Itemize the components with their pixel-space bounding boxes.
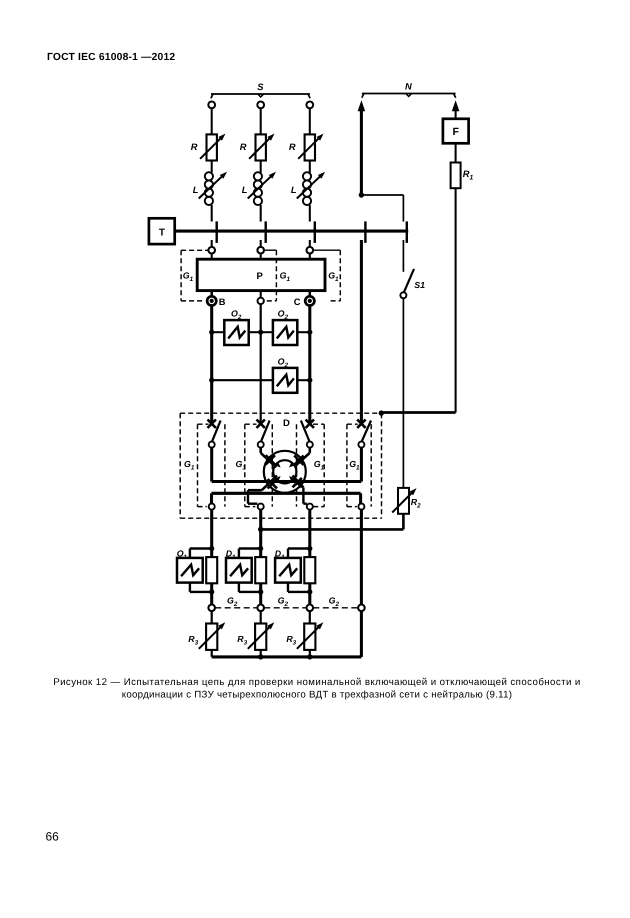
switch pole 1 blade <box>212 421 221 442</box>
node N (neutral bracket) <box>362 82 456 98</box>
wire <box>455 109 457 119</box>
resistor R (adjustable) phase 1 <box>191 134 226 161</box>
wire phase 3 main <box>308 306 311 423</box>
svg-text:L: L <box>193 185 199 195</box>
wire: R2 return to phase 2 <box>261 528 404 531</box>
svg-text:G1: G1 <box>328 270 339 283</box>
svg-text:координации с ПЗУ четырехполюс: координации с ПЗУ четырехполюсного ВДТ в… <box>122 689 513 700</box>
wire <box>260 254 262 260</box>
resistor R (adjustable) phase 2 <box>240 134 275 161</box>
conductor crossing mark 2 <box>294 456 303 465</box>
wire pole4 to bottom terminal <box>359 493 362 504</box>
node S (supply bracket) <box>211 82 310 98</box>
wire: bottom return bus <box>212 655 362 658</box>
svg-text:B: B <box>219 297 226 307</box>
junction <box>307 589 312 594</box>
wire <box>260 240 262 247</box>
svg-text:F: F <box>452 126 459 138</box>
wire <box>309 205 311 222</box>
svg-text:S: S <box>257 82 264 92</box>
wire <box>297 379 310 381</box>
device O2 (c) <box>273 357 297 393</box>
junction <box>307 330 312 335</box>
junction <box>307 546 312 551</box>
junction <box>258 546 263 551</box>
device O2 (a) <box>224 309 248 345</box>
terminal circle G2 node 2 <box>257 605 264 612</box>
junction <box>307 654 312 659</box>
wire pole2 into toroid <box>261 448 277 468</box>
svg-text:R1: R1 <box>463 169 474 182</box>
wire phase 1 <box>210 510 213 605</box>
svg-text:G2: G2 <box>329 596 340 609</box>
junction <box>209 378 214 383</box>
wire <box>402 514 405 530</box>
junction <box>209 589 214 594</box>
terminal circle G2 node 3 <box>307 605 314 612</box>
resistor R (adjustable) phase 3 <box>289 134 324 161</box>
wire N <box>360 510 363 605</box>
svg-text:G1: G1 <box>349 459 360 472</box>
svg-text:R: R <box>191 142 198 152</box>
switch pole 2 moving contact <box>258 442 264 448</box>
conductor crossing mark 1 <box>266 455 275 464</box>
switch pole 2 blade <box>261 421 270 442</box>
wire pole2 out of toroid <box>248 476 277 504</box>
wire <box>297 331 310 333</box>
junction <box>258 589 263 594</box>
wire pole3 out of toroid <box>293 476 307 504</box>
svg-text:P: P <box>257 271 264 282</box>
svg-text:R3: R3 <box>188 634 198 647</box>
switch pole 2 fixed contact <box>257 420 265 428</box>
svg-text:T: T <box>159 227 165 238</box>
switch pole 4 fixed contact <box>357 420 365 428</box>
inductor L (adjustable) phase 2 <box>242 172 276 205</box>
dashed box G1 pole 3 <box>297 424 325 506</box>
wire <box>260 109 262 135</box>
bottom terminal circle pole 3 <box>307 504 313 510</box>
switch pole 4 blade <box>362 421 371 442</box>
svg-text:L: L <box>242 185 248 195</box>
toroid core (detector) <box>264 451 306 493</box>
wire <box>309 291 312 297</box>
wire <box>260 650 262 657</box>
wire <box>211 611 213 623</box>
resistor R2 (adjustable) <box>392 488 421 514</box>
wire N to bus <box>360 611 363 657</box>
terminal circle phase 3 <box>306 102 313 109</box>
dashed box G1 group c <box>313 250 340 301</box>
dashed box G1 group b <box>264 250 276 301</box>
dashed link G2 <box>313 607 358 609</box>
toroid arrow 3 <box>274 476 280 482</box>
wire <box>212 331 225 333</box>
switch pole 1 fixed contact <box>208 420 216 428</box>
svg-text:L: L <box>291 185 297 195</box>
wire <box>309 161 311 173</box>
wire <box>260 291 262 298</box>
resistor in unit phase 3 <box>304 557 315 583</box>
toroid arrow 4 <box>289 476 295 482</box>
terminal circle above P, phase 3 <box>307 247 314 254</box>
terminal circle phase 2 <box>257 102 264 109</box>
wire pole1 down <box>210 448 213 482</box>
switch pole 3 fixed contact <box>306 420 314 428</box>
junction <box>258 527 263 532</box>
wire <box>260 205 262 222</box>
svg-text:R3: R3 <box>286 634 296 647</box>
wire: link from R1 branch to D <box>381 411 455 414</box>
wire <box>211 650 213 657</box>
wire <box>211 205 213 222</box>
resistor R1 <box>451 163 474 189</box>
dashed box G1 group a (around P poles 1) <box>181 250 208 301</box>
wire <box>260 161 262 173</box>
contact tick phase 2 <box>265 221 267 243</box>
svg-text:G1: G1 <box>183 270 194 283</box>
svg-text:66: 66 <box>46 830 60 844</box>
terminal circle phase 1 <box>208 102 215 109</box>
terminal circle phase 2 below P <box>258 298 264 304</box>
wire: N conductor <box>360 109 363 195</box>
junction <box>379 410 384 415</box>
wire <box>260 611 262 623</box>
wire phase 2 <box>259 510 262 605</box>
wire <box>402 298 404 488</box>
svg-text:R2: R2 <box>411 497 421 510</box>
terminal circle G2 node 1 <box>208 605 215 612</box>
svg-text:R: R <box>240 142 247 152</box>
device P (making switch) <box>197 259 325 290</box>
resistor R3 (adjustable) phase 2 <box>237 622 274 650</box>
dashed box G1 pole 4 <box>347 424 371 506</box>
device O2 (b) <box>273 309 297 345</box>
wire <box>309 254 311 260</box>
switch S1 <box>400 269 425 298</box>
resistor R3 (adjustable) phase 1 <box>188 622 225 650</box>
contact tick phase 1 <box>215 221 217 243</box>
junction <box>307 378 312 383</box>
junction node on N <box>359 192 364 197</box>
device D1 unit phase 3 <box>275 548 310 592</box>
toroid arrow 2 <box>289 461 295 467</box>
svg-text:D: D <box>283 418 290 429</box>
wire <box>455 188 457 412</box>
switch pole 1 moving contact <box>209 442 215 448</box>
wire phase 3 <box>308 510 311 605</box>
resistor R3 (adjustable) phase 3 <box>286 622 323 650</box>
svg-text:G1: G1 <box>184 459 195 472</box>
wire pole4 down <box>360 448 363 482</box>
switch pole 3 blade <box>301 421 310 442</box>
inductor L (adjustable) phase 1 <box>193 172 227 205</box>
dashed link G2 <box>264 607 306 609</box>
wire phase 2 main <box>260 304 262 423</box>
conductor crossing mark 3 <box>268 479 277 488</box>
switch pole 3 moving contact <box>307 442 313 448</box>
wire <box>455 143 457 162</box>
wire branch to S1 <box>361 194 403 196</box>
terminal circle above P, phase 1 <box>208 247 215 254</box>
svg-text:G1: G1 <box>280 270 291 283</box>
wire <box>212 379 273 381</box>
wire: test bus <box>175 230 409 233</box>
conductor crossing mark 4 <box>293 478 302 487</box>
terminal circle above P, phase 2 <box>257 247 264 254</box>
device O1 unit phase 1 <box>177 548 212 592</box>
bottom terminal circle pole 1 <box>209 504 215 510</box>
contact tick phase 3 <box>314 221 316 243</box>
dashed box G1 pole 2 <box>245 424 272 506</box>
inductor L (adjustable) phase 3 <box>291 172 325 205</box>
svg-text:ГОСТ IEC 61008-1 —2012: ГОСТ IEC 61008-1 —2012 <box>47 52 175 63</box>
svg-text:G1: G1 <box>314 459 325 472</box>
switch pole 4 moving contact <box>358 442 364 448</box>
contact tick S1 branch <box>406 221 408 243</box>
svg-text:Рисунок 12 — Испытательная цеп: Рисунок 12 — Испытательная цепь для пров… <box>53 677 581 688</box>
wire <box>211 240 213 247</box>
terminal circle G2 node 4 <box>358 605 365 612</box>
dashed box: device D under test <box>180 413 381 518</box>
wire <box>261 331 273 333</box>
wire pole3 into toroid <box>294 448 310 467</box>
device F <box>443 119 469 144</box>
node B <box>207 296 226 307</box>
wire: S1 branch <box>402 240 404 272</box>
bottom terminal circle pole 2 <box>258 504 264 510</box>
wire <box>211 161 213 173</box>
junction <box>258 654 263 659</box>
wire <box>309 240 311 247</box>
wire <box>210 291 213 297</box>
junction <box>209 546 214 551</box>
wire <box>309 650 311 657</box>
toroid arrow 1 <box>274 461 280 467</box>
device T (trip test box) <box>149 218 175 244</box>
svg-text:G2: G2 <box>278 596 289 609</box>
wire <box>249 331 261 333</box>
dashed box G1 pole 1 <box>198 424 225 506</box>
node C <box>294 296 315 307</box>
resistor in unit phase 2 <box>255 557 266 583</box>
svg-text:G2: G2 <box>227 596 238 609</box>
arrow: N supply right lead <box>452 100 460 111</box>
svg-text:C: C <box>294 297 301 307</box>
contact tick N <box>364 221 366 243</box>
svg-text:N: N <box>405 82 412 92</box>
dashed link G2 <box>215 607 257 609</box>
device D1 unit phase 2 <box>226 548 261 592</box>
junction <box>258 330 263 335</box>
wire <box>309 109 311 135</box>
wire phase 1 main <box>210 306 213 423</box>
wire: N conductor to pole 4 <box>360 240 363 423</box>
wire pole1 to bottom terminal <box>210 493 213 504</box>
svg-text:R: R <box>289 142 296 152</box>
svg-text:S1: S1 <box>414 280 425 290</box>
junction <box>209 330 214 335</box>
wire <box>309 611 311 623</box>
arrow: N supply left lead <box>358 100 366 111</box>
wire: horizontal run A through toroid <box>212 480 362 483</box>
bottom terminal circle pole 4 <box>358 504 364 510</box>
wire: horizontal run B through toroid <box>212 492 361 495</box>
wire <box>211 254 213 260</box>
resistor in unit phase 1 <box>206 557 217 583</box>
wire <box>211 109 213 135</box>
svg-text:R3: R3 <box>237 634 247 647</box>
